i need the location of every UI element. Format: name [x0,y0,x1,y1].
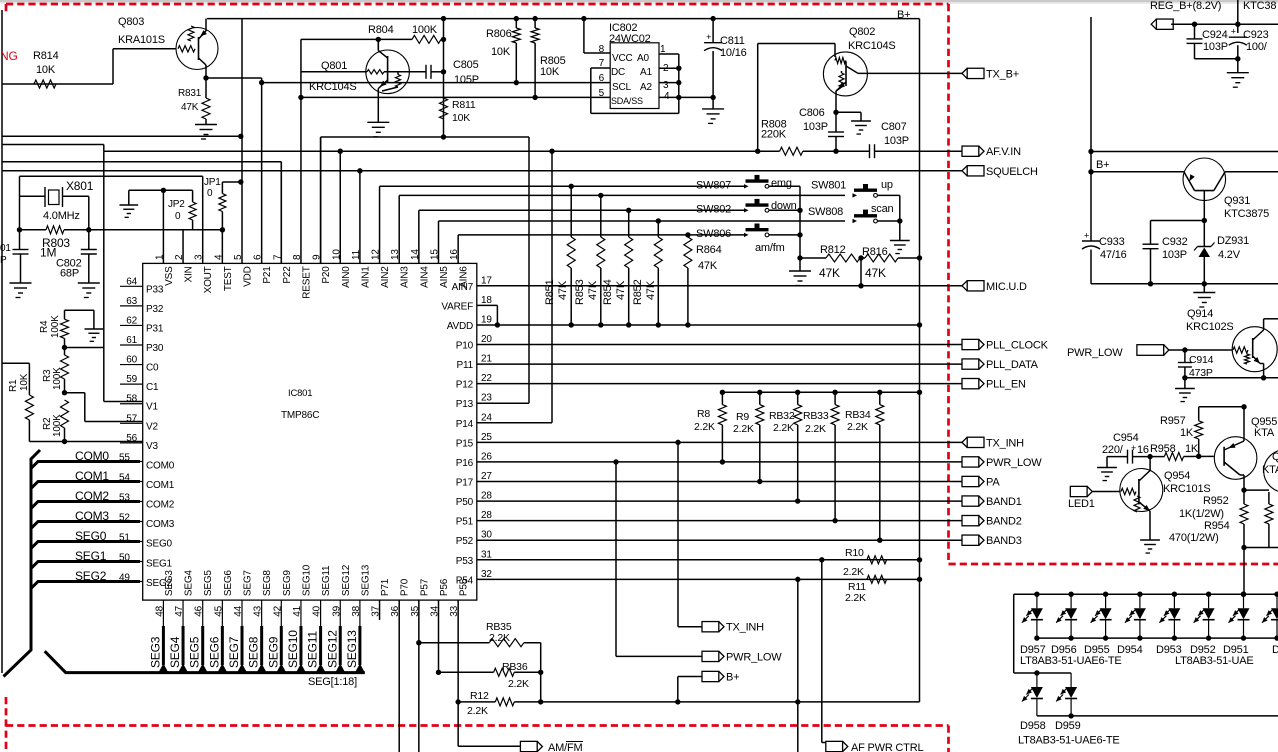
svg-text:10K: 10K [19,373,30,391]
svg-text:47K: 47K [645,280,657,300]
svg-text:1K(1/2W): 1K(1/2W) [1179,508,1224,520]
svg-text:am/fm: am/fm [755,242,785,254]
svg-text:P70: P70 [400,578,411,596]
svg-text:103P: 103P [803,121,828,133]
svg-text:VDD: VDD [243,266,254,287]
svg-text:SEG2: SEG2 [146,578,173,589]
svg-text:55: 55 [119,453,130,464]
svg-text:X801: X801 [66,179,94,193]
svg-text:C924: C924 [1202,29,1228,41]
svg-text:TX_INH: TX_INH [986,437,1024,449]
svg-text:NG: NG [0,49,18,63]
svg-text:10K: 10K [452,112,470,124]
svg-text:100K: 100K [52,367,63,390]
svg-text:58: 58 [126,394,137,405]
svg-text:D: D [1272,644,1278,656]
svg-text:PWR_LOW: PWR_LOW [1067,347,1123,359]
svg-text:KTC3875: KTC3875 [1224,208,1269,220]
svg-text:R804: R804 [368,24,394,36]
svg-text:SCL: SCL [612,82,631,93]
svg-text:2.2K: 2.2K [773,422,794,434]
svg-text:SEG6: SEG6 [223,570,234,597]
svg-text:AF PWR CTRL: AF PWR CTRL [851,742,923,752]
svg-text:C1: C1 [146,382,159,393]
svg-text:RB33: RB33 [803,410,829,422]
svg-text:B+: B+ [1096,159,1109,171]
svg-text:KTA: KTA [1254,427,1275,439]
svg-text:COM1: COM1 [75,469,109,483]
svg-text:17: 17 [481,275,492,286]
svg-text:R806: R806 [486,28,512,40]
svg-text:TX_INH: TX_INH [726,622,764,634]
svg-text:R812: R812 [820,244,846,256]
svg-text:SDA/SS: SDA/SS [611,96,643,106]
svg-text:2.2K: 2.2K [467,705,488,717]
svg-text:PLL_EN: PLL_EN [986,379,1026,391]
svg-text:52: 52 [119,513,130,524]
svg-text:2.2K: 2.2K [733,423,754,435]
svg-text:C914: C914 [1189,354,1214,366]
svg-text:JP1: JP1 [204,177,221,188]
svg-text:P31: P31 [146,323,164,334]
svg-text:P53: P53 [456,556,474,567]
svg-text:100K: 100K [52,414,63,437]
svg-text:COM1: COM1 [146,480,175,491]
svg-text:KTC38: KTC38 [1243,0,1276,12]
svg-text:64: 64 [126,276,137,287]
svg-text:47K: 47K [698,260,718,272]
svg-text:P: P [0,255,7,266]
svg-text:4.2V: 4.2V [1218,249,1241,261]
svg-text:61: 61 [126,335,137,346]
svg-text:KRC102S: KRC102S [1186,321,1234,333]
svg-text:P17: P17 [456,478,474,489]
svg-text:BAND3: BAND3 [986,535,1022,547]
svg-text:scan: scan [871,203,894,215]
svg-text:C923: C923 [1243,29,1269,41]
svg-text:C807: C807 [881,121,907,133]
svg-text:+: + [1084,231,1089,241]
svg-text:47K: 47K [557,280,569,300]
svg-text:BAND2: BAND2 [986,516,1022,528]
svg-text:V3: V3 [146,441,158,452]
svg-text:R811: R811 [452,99,476,111]
svg-text:P33: P33 [146,284,164,295]
svg-text:50: 50 [119,553,130,564]
svg-text:LT8AB3-51-UAE: LT8AB3-51-UAE [1175,655,1254,667]
svg-text:P20: P20 [321,266,332,284]
svg-text:P22: P22 [282,266,293,284]
svg-text:SEG[1:18]: SEG[1:18] [308,676,357,688]
svg-text:68P: 68P [60,268,79,280]
svg-text:IC801: IC801 [288,388,312,399]
svg-text:BAND1: BAND1 [986,496,1022,508]
svg-text:AIN5: AIN5 [439,266,450,288]
svg-text:470(1/2W): 470(1/2W) [1169,532,1219,544]
svg-text:Q803: Q803 [118,16,144,28]
svg-text:SEG10: SEG10 [286,630,300,668]
svg-text:A2: A2 [640,82,652,93]
svg-text:P51: P51 [456,517,474,528]
svg-text:103P: 103P [1203,41,1228,53]
svg-text:SEG0: SEG0 [75,529,107,543]
svg-text:JP2: JP2 [168,199,185,210]
svg-text:C0: C0 [146,363,159,374]
svg-text:+: + [1231,27,1236,37]
svg-text:RB36: RB36 [502,661,528,673]
svg-text:SEG12: SEG12 [341,564,352,596]
svg-text:18: 18 [481,295,492,306]
svg-text:AF.V.IN: AF.V.IN [986,146,1021,158]
svg-text:COM2: COM2 [146,500,175,511]
svg-text:R831: R831 [178,88,202,99]
svg-text:C805: C805 [453,59,479,71]
svg-text:51: 51 [119,533,130,544]
svg-text:P12: P12 [456,380,474,391]
svg-text:SEG8: SEG8 [262,570,273,597]
svg-text:100K: 100K [50,315,61,338]
svg-text:COM3: COM3 [146,519,175,530]
svg-text:P71: P71 [380,578,391,596]
svg-text:+: + [1131,443,1136,453]
svg-text:49: 49 [119,573,130,584]
svg-text:10K: 10K [36,64,56,76]
svg-text:P52: P52 [456,536,474,547]
svg-text:LED1: LED1 [1068,498,1095,510]
svg-text:P56: P56 [439,578,450,596]
svg-text:P30: P30 [146,343,164,354]
svg-text:V1: V1 [146,402,158,413]
svg-text:SW806: SW806 [696,228,731,240]
svg-text:SEG12: SEG12 [325,630,339,668]
svg-text:2.2K: 2.2K [489,632,510,644]
svg-text:1K: 1K [1180,427,1194,439]
svg-text:C811: C811 [720,35,745,47]
svg-text:Q931: Q931 [1224,195,1250,207]
svg-text:47K: 47K [181,102,199,113]
svg-text:R9: R9 [736,411,749,423]
svg-text:P54: P54 [456,575,474,586]
svg-text:22: 22 [481,373,492,384]
svg-text:P13: P13 [456,399,474,410]
svg-text:emg: emg [771,178,792,190]
svg-text:SEG7: SEG7 [227,636,241,668]
svg-text:SW801: SW801 [811,180,846,192]
svg-text:5: 5 [599,88,605,99]
svg-text:26: 26 [481,451,492,462]
svg-text:SEG11: SEG11 [321,565,332,596]
svg-text:2.2K: 2.2K [845,592,866,604]
svg-text:LT8AB3-51-UAE6-TE: LT8AB3-51-UAE6-TE [1018,735,1120,747]
svg-text:KRC104S: KRC104S [848,40,896,52]
svg-text:Q802: Q802 [849,26,875,38]
svg-text:1K: 1K [1185,443,1199,455]
svg-text:B+: B+ [897,9,910,21]
svg-text:PLL_CLOCK: PLL_CLOCK [986,340,1049,352]
svg-text:PWR_LOW: PWR_LOW [726,651,782,663]
svg-text:R851: R851 [544,279,556,305]
svg-text:R814: R814 [33,50,59,62]
svg-text:SEG6: SEG6 [207,636,221,668]
svg-text:R816: R816 [862,246,888,258]
svg-text:DZ931: DZ931 [1217,235,1249,247]
svg-text:R957: R957 [1160,415,1186,427]
svg-text:Q801: Q801 [321,60,347,72]
svg-text:XIN: XIN [184,266,195,282]
svg-text:SEG0: SEG0 [146,539,173,550]
svg-text:4.0MHz: 4.0MHz [43,210,80,222]
svg-text:01: 01 [0,243,11,254]
svg-text:SEG7: SEG7 [243,570,254,597]
svg-text:63: 63 [126,296,137,307]
svg-text:105P: 105P [454,74,479,86]
svg-text:R854: R854 [602,279,614,305]
svg-text:SEG2: SEG2 [75,569,107,583]
svg-text:3: 3 [663,80,669,91]
svg-text:SEG8: SEG8 [247,636,261,668]
svg-text:TEST: TEST [223,266,234,291]
svg-text:10/16: 10/16 [720,47,747,59]
svg-text:RB34: RB34 [845,409,871,421]
svg-text:30: 30 [481,530,492,541]
svg-text:VAREF: VAREF [441,301,473,312]
svg-text:103P: 103P [884,135,909,147]
svg-text:23: 23 [481,393,492,404]
svg-text:P50: P50 [456,497,474,508]
svg-text:AIN7: AIN7 [452,282,474,293]
svg-text:62: 62 [126,315,137,326]
svg-text:DC: DC [611,67,625,78]
svg-text:R952: R952 [1203,495,1229,507]
svg-text:19: 19 [481,314,492,325]
svg-text:C806: C806 [799,107,825,119]
svg-text:P15: P15 [456,438,474,449]
svg-text:COM0: COM0 [146,460,175,471]
svg-text:RB32: RB32 [769,410,795,422]
svg-text:SEG5: SEG5 [188,636,202,668]
svg-text:0: 0 [207,188,213,199]
svg-text:R864: R864 [696,244,722,256]
svg-text:COM2: COM2 [75,489,109,503]
svg-text:SEG3: SEG3 [148,636,162,668]
svg-text:24WC02: 24WC02 [609,33,651,45]
svg-text:16: 16 [1137,444,1149,456]
svg-text:AIN1: AIN1 [360,266,371,288]
svg-text:SEG9: SEG9 [282,570,293,597]
svg-text:47/16: 47/16 [1100,249,1127,261]
svg-text:R4: R4 [39,320,50,333]
svg-text:6: 6 [599,73,605,84]
svg-text:31: 31 [481,549,492,560]
svg-text:V2: V2 [146,421,158,432]
svg-text:C933: C933 [1099,236,1125,248]
svg-text:28: 28 [481,510,492,521]
svg-text:47K: 47K [615,280,627,300]
svg-text:SEG1: SEG1 [75,549,107,563]
svg-text:KRC101S: KRC101S [1163,483,1211,495]
svg-text:SW808: SW808 [808,206,843,218]
svg-text:P10: P10 [456,341,474,352]
svg-text:54: 54 [119,473,130,484]
svg-text:SW802: SW802 [696,203,731,215]
svg-text:27: 27 [481,471,492,482]
svg-text:P57: P57 [419,578,430,596]
svg-text:VCC: VCC [612,53,633,64]
svg-text:24: 24 [481,412,492,423]
svg-text:R852: R852 [632,279,644,305]
svg-text:SEG4: SEG4 [168,636,182,668]
svg-text:LT8AB3-51-UAE6-TE: LT8AB3-51-UAE6-TE [1020,655,1122,667]
svg-text:Q954: Q954 [1164,470,1190,482]
svg-text:20: 20 [481,334,492,345]
svg-text:2.2K: 2.2K [508,678,529,690]
svg-text:XOUT: XOUT [203,266,214,293]
svg-text:2.2K: 2.2K [847,421,868,433]
svg-text:P11: P11 [457,360,474,371]
svg-text:0: 0 [175,211,181,222]
svg-text:P14: P14 [456,419,474,430]
svg-text:AM/: AM/ [548,742,568,752]
svg-text:57: 57 [126,413,137,424]
svg-text:TMP86C: TMP86C [281,410,319,421]
svg-text:D958: D958 [1020,720,1046,732]
svg-text:KRA101S: KRA101S [118,34,165,46]
svg-text:Q914: Q914 [1187,308,1213,320]
svg-text:47K: 47K [587,280,599,300]
svg-text:2.2K: 2.2K [694,421,715,433]
svg-text:100/: 100/ [1246,41,1268,53]
svg-text:P16: P16 [456,458,474,469]
svg-text:SEG5: SEG5 [203,570,214,597]
svg-text:100K: 100K [412,24,438,36]
svg-text:VSS: VSS [164,266,175,286]
svg-text:MIC.U.D: MIC.U.D [986,281,1027,293]
svg-text:SW807: SW807 [696,179,731,191]
svg-text:SEG1: SEG1 [146,558,173,569]
svg-text:REG_B+(8.2V): REG_B+(8.2V) [1150,0,1221,12]
svg-text:FM: FM [567,742,583,752]
svg-text:SEG10: SEG10 [301,564,312,596]
svg-text:60: 60 [126,355,137,366]
svg-text:Q: Q [1272,451,1278,463]
svg-text:AIN2: AIN2 [380,266,391,288]
svg-text:32: 32 [481,569,492,580]
svg-text:R1: R1 [8,379,19,392]
svg-text:AVDD: AVDD [447,321,473,332]
svg-text:R8: R8 [697,408,710,420]
svg-text:SEG4: SEG4 [184,570,195,597]
svg-text:2.2K: 2.2K [805,423,826,435]
svg-text:P21: P21 [262,266,273,284]
svg-text:10K: 10K [491,46,511,58]
svg-text:47K: 47K [865,266,886,280]
svg-text:103P: 103P [1162,249,1187,261]
svg-text:R12: R12 [470,690,489,702]
svg-text:A0: A0 [637,53,649,64]
svg-text:COM0: COM0 [75,449,109,463]
svg-text:PWR_LOW: PWR_LOW [986,457,1042,469]
svg-text:+: + [706,32,711,42]
svg-text:220K: 220K [761,129,787,141]
svg-text:R10: R10 [845,547,864,559]
svg-text:C932: C932 [1162,236,1188,248]
svg-text:PA: PA [986,477,1000,489]
svg-text:AIN3: AIN3 [400,266,411,288]
svg-text:KTA: KTA [1262,464,1278,476]
svg-text:2.2K: 2.2K [843,566,864,578]
svg-text:SEG9: SEG9 [266,636,280,668]
svg-text:A1: A1 [640,67,652,78]
svg-text:59: 59 [126,374,137,385]
svg-text:47K: 47K [819,266,840,280]
svg-text:21: 21 [481,354,492,365]
svg-text:4: 4 [664,91,670,102]
svg-text:220/: 220/ [1102,444,1124,456]
svg-text:RESET: RESET [301,266,312,298]
svg-text:COM3: COM3 [75,509,109,523]
svg-text:AIN0: AIN0 [341,266,352,288]
svg-text:SEG11: SEG11 [306,631,320,668]
svg-text:53: 53 [119,493,130,504]
svg-text:10K: 10K [540,66,560,78]
svg-text:P32: P32 [146,304,164,315]
svg-text:R954: R954 [1204,520,1230,532]
svg-text:D959: D959 [1055,720,1081,732]
svg-text:B+: B+ [726,672,739,684]
svg-text:SEG13: SEG13 [345,630,359,668]
svg-text:28: 28 [481,491,492,502]
svg-text:TX_B+: TX_B+ [986,68,1019,80]
svg-text:25: 25 [481,432,492,443]
svg-text:AIN4: AIN4 [419,266,430,288]
svg-text:SEG13: SEG13 [360,564,371,596]
svg-text:PLL_DATA: PLL_DATA [986,359,1039,371]
svg-text:SQUELCH: SQUELCH [986,166,1038,178]
svg-text:R853: R853 [574,279,586,305]
svg-text:1M: 1M [40,246,56,260]
svg-text:up: up [881,179,893,191]
